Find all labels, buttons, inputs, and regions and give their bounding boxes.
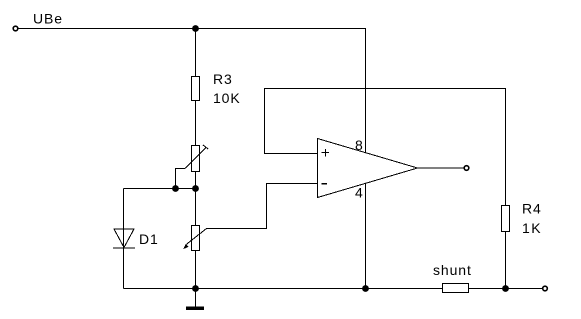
trimmer P2 body <box>192 226 200 251</box>
svg-text:UBe: UBe <box>33 11 63 27</box>
svg-text:8: 8 <box>355 137 364 153</box>
node dot ground at divider <box>192 285 199 292</box>
wire R3 to trimmer P1 <box>195 101 197 146</box>
wire supply to R3 <box>195 29 197 77</box>
wire shunt to output terminal <box>469 288 543 290</box>
diode D1 <box>113 229 135 248</box>
svg-text:R4: R4 <box>522 201 542 217</box>
wire ground rail left <box>124 288 443 290</box>
wire pin 4 to ground rail <box>365 184 367 289</box>
op-amp U1 <box>318 139 418 198</box>
node dot wiper junction <box>172 185 179 192</box>
terminal output <box>464 166 469 171</box>
node dot pin 4 ground <box>362 285 369 292</box>
resistor R3 <box>192 77 200 101</box>
svg-text:R3: R3 <box>213 71 233 87</box>
svg-text:10K: 10K <box>213 90 241 106</box>
shunt resistor <box>443 284 469 293</box>
wire op-amp output <box>418 167 465 169</box>
wire node to diode D1 <box>123 189 125 249</box>
wire R4 to ground rail <box>505 232 507 289</box>
wire P2 wiper to op-amp inverting input <box>207 184 318 229</box>
terminal ground output <box>543 286 548 291</box>
wire P1 to P2 <box>195 172 197 226</box>
op-amp inverting input - <box>322 183 327 185</box>
svg-text:1K: 1K <box>522 220 542 236</box>
wire feedback from non-inverting input to R4 <box>265 89 506 206</box>
wire node to main vertical <box>124 188 196 190</box>
resistor R4 <box>502 206 510 232</box>
svg-text:4: 4 <box>355 185 364 201</box>
node dot main junction <box>192 185 199 192</box>
svg-text:shunt: shunt <box>433 262 472 278</box>
svg-text:D1: D1 <box>139 231 159 247</box>
node dot R4 ground <box>502 285 509 292</box>
wire UBe supply rail to pin 8 <box>19 29 366 153</box>
terminal UBe input <box>13 26 18 31</box>
trimmer P2 wiper with arrow <box>183 229 207 250</box>
wire D1 to ground rail <box>123 248 125 289</box>
trimmer P1 wiper <box>185 145 208 169</box>
ground symbol <box>186 289 204 311</box>
wire P2 to ground rail <box>195 251 197 289</box>
node junction supply rail / R3 <box>192 25 199 32</box>
wire P1 wiper to node <box>176 169 186 189</box>
op-amp non-inverting input + <box>322 149 329 157</box>
trimmer P1 body <box>192 146 200 172</box>
